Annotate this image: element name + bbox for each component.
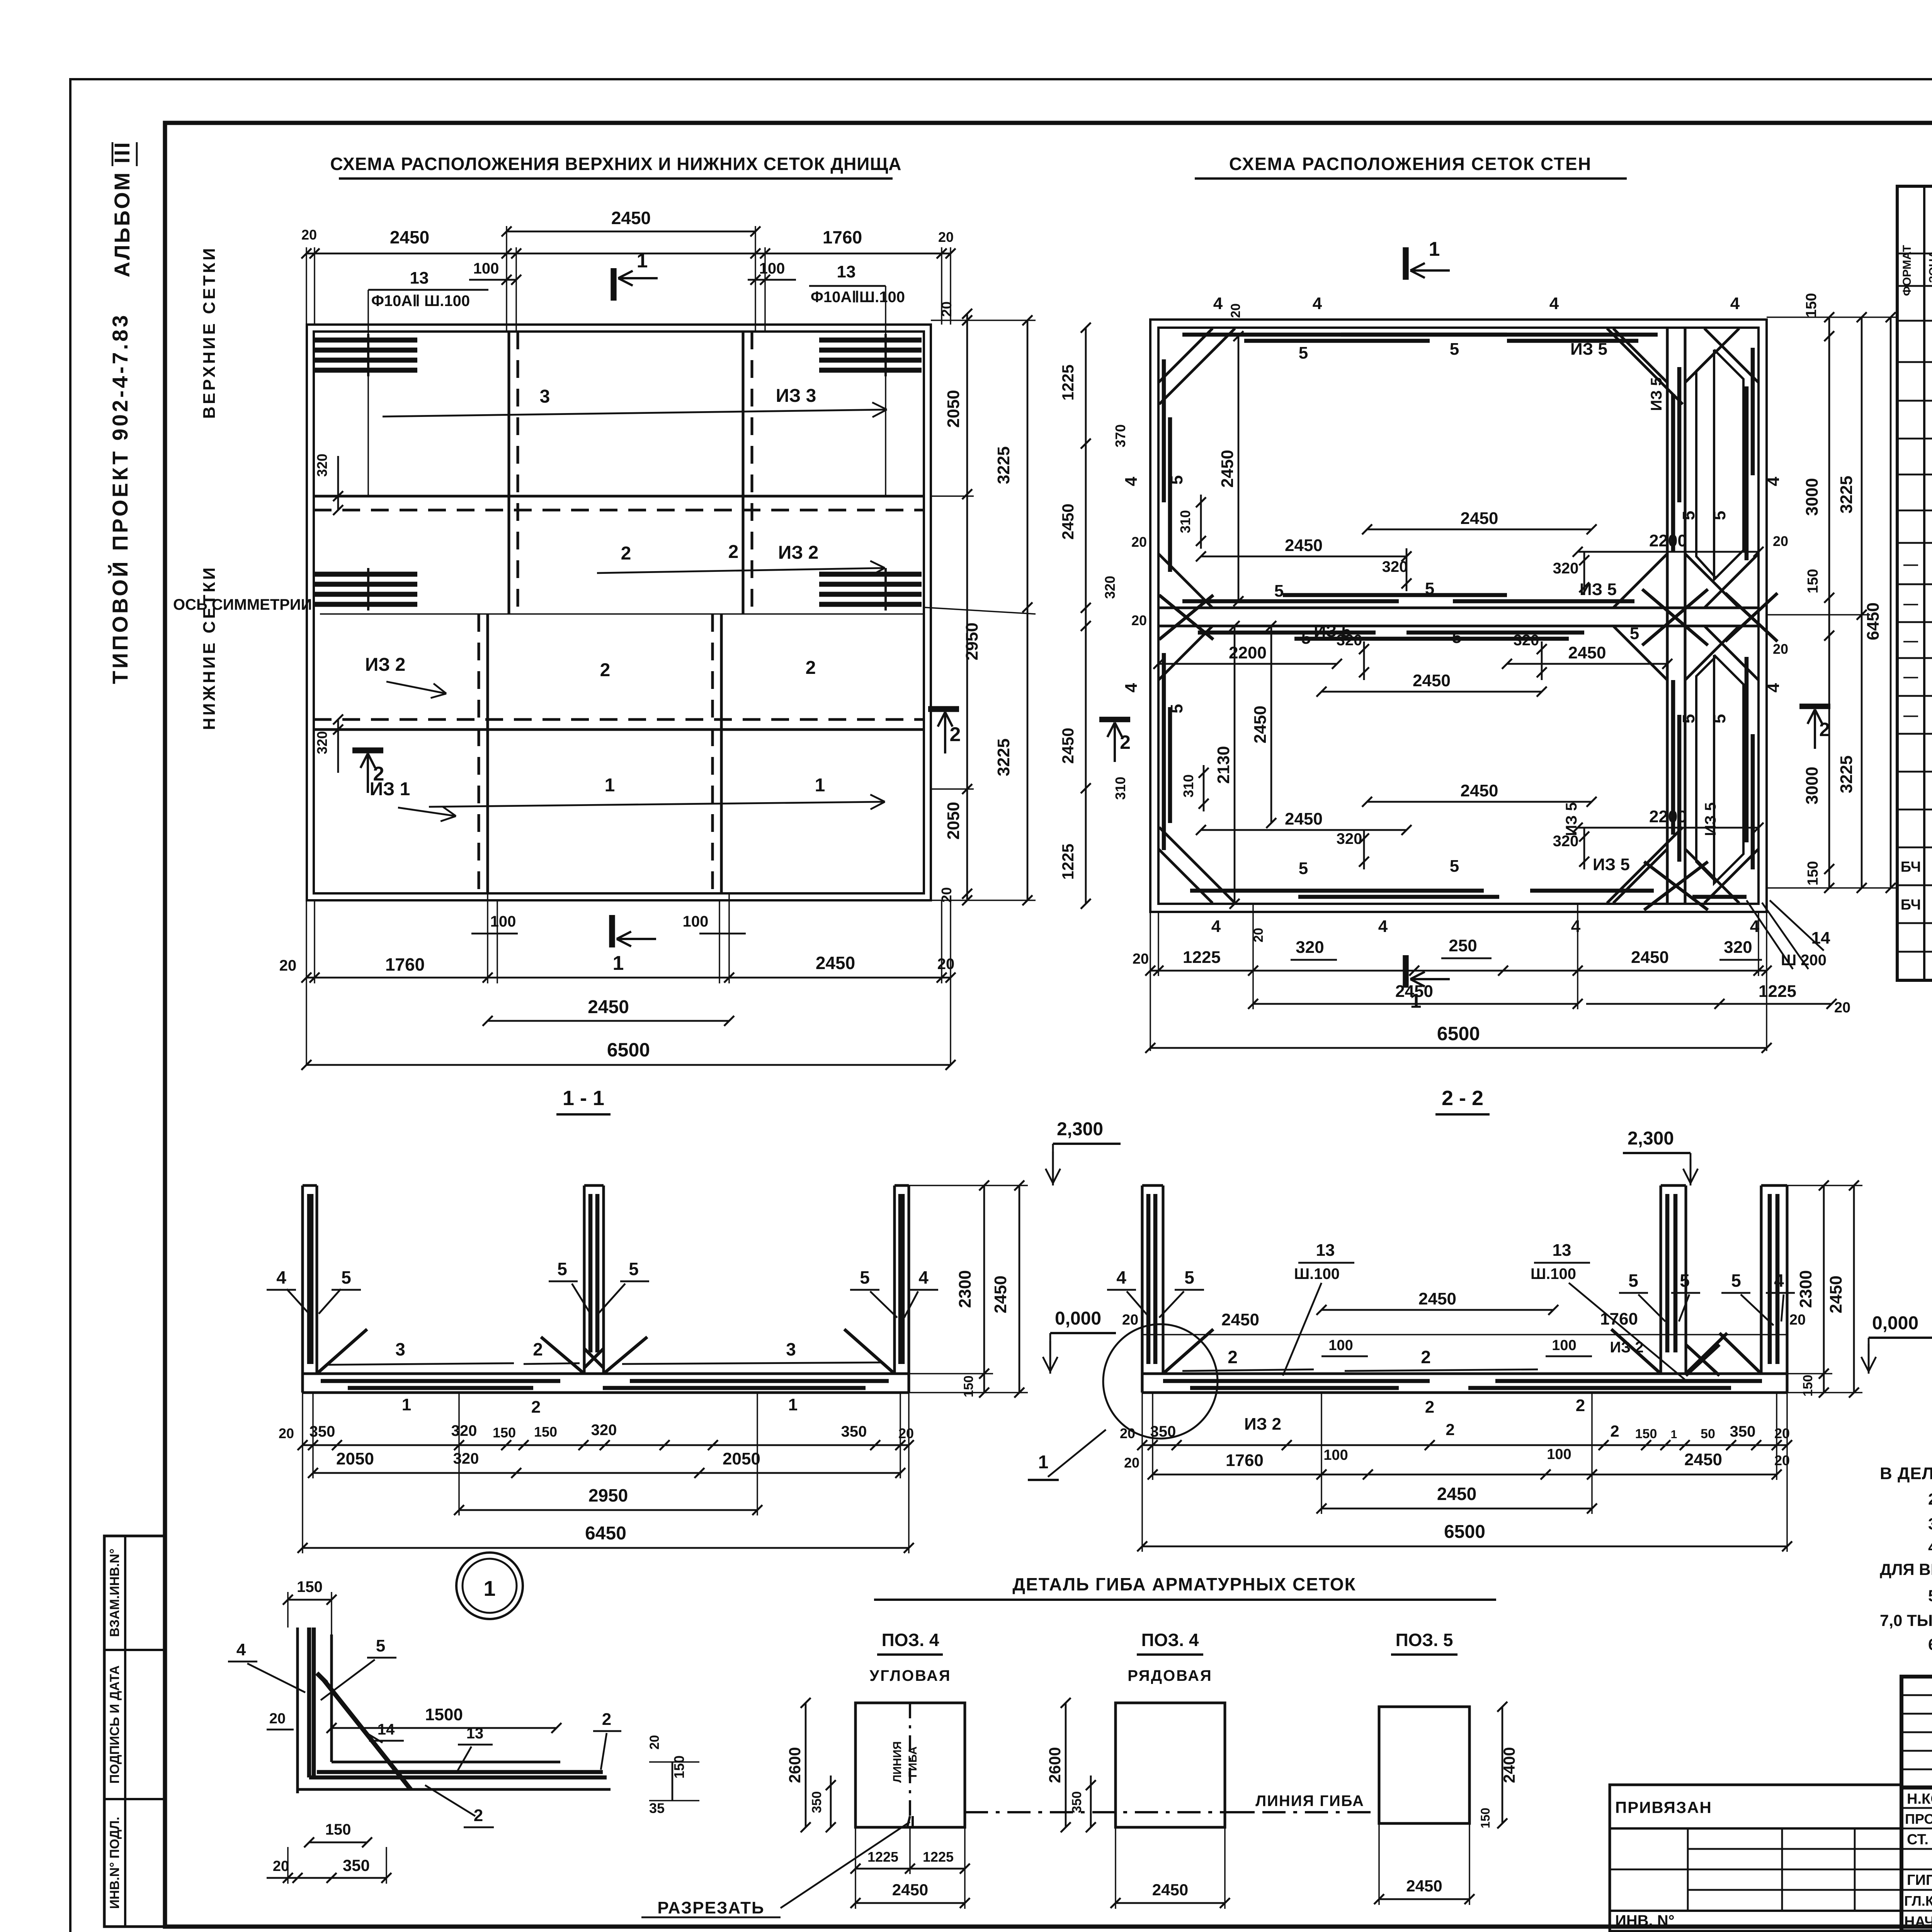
svg-text:СТ. ИНЖ.: СТ. ИНЖ.	[1907, 1832, 1932, 1848]
svg-text:В ДЕЛО СОГЛАСНО ДЕТАЛИ.: В ДЕЛО СОГЛАСНО ДЕТАЛИ.	[1880, 1464, 1932, 1483]
svg-text:СХЕМА РАСПОЛОЖЕНИЯ СЕТОК СТЕН: СХЕМА РАСПОЛОЖЕНИЯ СЕТОК СТЕН	[1229, 154, 1592, 174]
svg-text:—: —	[1903, 707, 1918, 724]
svg-text:2450: 2450	[1221, 1310, 1259, 1329]
svg-text:5: 5	[1299, 344, 1308, 362]
section 1-1 right dim 2450	[1019, 1185, 1020, 1393]
plan2 mesh lines bottom wall	[1190, 889, 1484, 893]
svg-text:2450: 2450	[1631, 948, 1669, 967]
svg-text:5: 5	[1710, 714, 1729, 723]
svg-text:2950: 2950	[963, 622, 981, 660]
plan2 corner chamfers top-left	[1158, 328, 1213, 383]
svg-text:2: 2	[1425, 1398, 1434, 1417]
plan2 double chamfer bottom-left	[1159, 827, 1235, 903]
plan2 X cross at bottom-innerwall	[1644, 862, 1708, 910]
svg-text:2: 2	[1610, 1422, 1619, 1440]
svg-text:2600: 2600	[786, 1747, 804, 1783]
svg-text:1: 1	[605, 775, 615, 796]
svg-text:1: 1	[1429, 238, 1440, 260]
plan2 chamfers above mid wall	[1158, 554, 1213, 608]
plan2 X cross at mid-innerwall junction	[1642, 589, 1708, 645]
svg-text:1: 1	[402, 1395, 411, 1414]
svg-text:3225: 3225	[994, 446, 1013, 484]
svg-text:ПОЗ. 4: ПОЗ. 4	[882, 1630, 939, 1650]
plan2 section mark 2 right	[1799, 704, 1830, 709]
svg-text:5: 5	[1628, 1270, 1638, 1291]
svg-text:350: 350	[343, 1856, 370, 1874]
poz4 uglovaya dim 2450	[855, 1902, 965, 1904]
section 2-2 slab meshes	[1163, 1379, 1430, 1383]
svg-text:5: 5	[1450, 857, 1459, 876]
plan1 bottom dim 6500	[306, 1064, 951, 1066]
svg-text:4: 4	[1549, 294, 1559, 313]
svg-text:4: 4	[1730, 294, 1740, 313]
svg-text:3225: 3225	[1837, 476, 1856, 514]
section 2-2 corner hooks	[1163, 1329, 1213, 1374]
svg-text:4: 4	[236, 1640, 246, 1659]
svg-text:5: 5	[1425, 579, 1434, 598]
svg-text:2: 2	[728, 542, 739, 562]
svg-text:ИЗ 5: ИЗ 5	[1580, 580, 1617, 599]
svg-text:АЛЬБОМ III: АЛЬБОМ III	[110, 141, 134, 277]
svg-text:2450: 2450	[390, 227, 429, 247]
plan1 bottom ext lines	[487, 893, 488, 983]
svg-text:320: 320	[1514, 632, 1539, 649]
plan1 lower dashed grid line	[314, 718, 924, 721]
plan2 bottom dim 6500	[1150, 1047, 1767, 1049]
plan2 X cross at mid-left junction	[1159, 595, 1213, 639]
svg-text:150: 150	[1805, 861, 1821, 885]
svg-text:20: 20	[938, 229, 954, 245]
svg-text:1760: 1760	[823, 227, 862, 247]
svg-text:20: 20	[647, 1735, 662, 1750]
svg-text:2200: 2200	[1649, 531, 1687, 550]
svg-text:1: 1	[1038, 1452, 1049, 1473]
plan2 corner chamfers bottom-innerwall	[1613, 849, 1667, 903]
section 2-2 wall tops	[1142, 1184, 1163, 1187]
svg-text:ИЗ 5: ИЗ 5	[1648, 377, 1665, 411]
svg-text:5.КОЛИЧЕСТВО САЛЬНИКОВ В СКО: 5.КОЛИЧЕСТВО САЛЬНИКОВ В СКОБКАХ ОТНОСЯТ…	[1928, 1587, 1932, 1605]
svg-text:Φ10АⅡ Ш.100: Φ10АⅡ Ш.100	[371, 293, 470, 310]
section 1-1 right dim 2300+150	[983, 1185, 985, 1393]
svg-text:2: 2	[602, 1710, 611, 1729]
svg-text:5: 5	[1450, 340, 1459, 359]
svg-text:5: 5	[1184, 1267, 1194, 1287]
svg-text:5: 5	[1167, 704, 1186, 713]
poz5 dim 2450	[1379, 1898, 1469, 1900]
stamp strip box	[104, 1536, 165, 1927]
svg-text:—: —	[1903, 633, 1918, 649]
section 2-2 right wall	[1760, 1185, 1762, 1374]
svg-text:—: —	[1903, 669, 1918, 685]
svg-text:320: 320	[451, 1422, 477, 1439]
svg-text:100: 100	[1552, 1337, 1576, 1354]
svg-text:ПОЗ. 4: ПОЗ. 4	[1141, 1630, 1199, 1650]
svg-text:150: 150	[325, 1821, 351, 1838]
svg-text:5: 5	[1167, 475, 1186, 485]
section 2-2 inner wall	[1659, 1185, 1662, 1374]
plan2 lower room dim 2450 center	[1321, 691, 1542, 693]
plan1 bottom dim row 20-1760-2450-20	[306, 977, 951, 979]
section 2-2 right dims 2300 2450	[1823, 1185, 1825, 1393]
svg-text:2450: 2450	[1827, 1276, 1845, 1313]
poz4 square uglovaya	[855, 1703, 965, 1827]
svg-text:3000: 3000	[1803, 767, 1821, 804]
plan1 lower-left vertical grid	[486, 614, 489, 893]
svg-text:2450: 2450	[1059, 503, 1077, 539]
svg-text:ИЗ 2: ИЗ 2	[1610, 1339, 1643, 1356]
plan2 right dim chain 150-3000	[1828, 317, 1830, 888]
svg-text:7,0 ТЫС.М³/ СУТКИ.: 7,0 ТЫС.М³/ СУТКИ.	[1880, 1611, 1932, 1629]
plan2 lower room dim 2450 lower-left	[1201, 829, 1406, 831]
svg-text:150: 150	[1635, 1427, 1657, 1441]
svg-text:20: 20	[1133, 951, 1149, 967]
svg-text:5: 5	[1679, 714, 1698, 723]
svg-text:1: 1	[483, 1576, 495, 1600]
plan2 lower room dim 2450 rotated	[1270, 626, 1272, 823]
svg-text:2450: 2450	[816, 953, 855, 973]
svg-text:20: 20	[1789, 1312, 1806, 1328]
svg-text:4: 4	[1378, 917, 1388, 936]
svg-text:1225: 1225	[1059, 844, 1077, 879]
svg-text:6500: 6500	[1444, 1522, 1485, 1542]
svg-text:1225: 1225	[1759, 982, 1796, 1001]
svg-text:ЗОНА: ЗОНА	[1927, 250, 1932, 283]
svg-text:20: 20	[1122, 1312, 1138, 1328]
section 1-1 slab meshes	[321, 1379, 560, 1383]
svg-text:2450: 2450	[1285, 810, 1323, 828]
svg-text:2450: 2450	[1218, 450, 1237, 488]
svg-text:2: 2	[600, 660, 611, 680]
svg-text:2: 2	[1576, 1396, 1585, 1415]
svg-text:4: 4	[1774, 1270, 1784, 1291]
poz4 uglovaya dims 1225 1225	[855, 1868, 965, 1870]
plan1 mesh hatch upper-right	[819, 338, 922, 343]
stamp outer box	[1901, 1677, 1932, 1931]
svg-text:2: 2	[1421, 1347, 1431, 1367]
section 1-1 middle wall	[583, 1185, 585, 1374]
plan2 X cross at mid-right junction	[1725, 593, 1777, 641]
svg-text:2450: 2450	[1418, 1289, 1456, 1308]
svg-text:ИНВ. N°: ИНВ. N°	[1615, 1912, 1675, 1929]
plan2 corner chamfers top-right-innerwall	[1613, 328, 1667, 383]
svg-text:РЯДОВАЯ: РЯДОВАЯ	[1128, 1667, 1213, 1684]
svg-text:20: 20	[273, 1858, 289, 1874]
svg-text:2200: 2200	[1649, 807, 1687, 826]
svg-text:2450: 2450	[588, 997, 629, 1017]
plan2 outer wall outline	[1150, 320, 1767, 912]
svg-text:2450: 2450	[1395, 982, 1433, 1001]
svg-text:13: 13	[466, 1725, 484, 1742]
svg-text:2450: 2450	[1285, 536, 1323, 555]
section 1-1 slab	[303, 1372, 909, 1375]
svg-text:4: 4	[1122, 683, 1141, 692]
svg-text:150: 150	[1803, 293, 1820, 317]
svg-text:320: 320	[314, 454, 330, 477]
svg-text:3: 3	[540, 386, 550, 407]
svg-text:100: 100	[473, 260, 499, 277]
plan1 lower-right vertical grid	[720, 614, 723, 893]
bend line through squares	[965, 1811, 1379, 1813]
plan2 left dim chain	[1085, 328, 1087, 904]
svg-text:2300: 2300	[956, 1270, 975, 1308]
plan1 upper-right vertical grid	[742, 332, 744, 614]
svg-text:1: 1	[637, 250, 648, 272]
svg-text:20: 20	[939, 301, 954, 317]
svg-text:350: 350	[1150, 1423, 1176, 1440]
section 1-1 bottom dims row2	[313, 1472, 900, 1474]
plan2 interior horizontal wall	[1158, 606, 1759, 609]
svg-text:2 - 2: 2 - 2	[1442, 1087, 1483, 1110]
svg-text:13: 13	[1316, 1241, 1335, 1260]
svg-text:1225: 1225	[1059, 364, 1077, 400]
plan2 upper room dim 2450 center	[1367, 529, 1592, 531]
section 1-1 right wall	[907, 1185, 910, 1393]
svg-text:ЛИНИЯ ГИБА: ЛИНИЯ ГИБА	[1255, 1793, 1364, 1810]
svg-text:20: 20	[1834, 1000, 1850, 1016]
svg-text:5: 5	[557, 1259, 567, 1279]
section 2-2 slab	[1142, 1372, 1787, 1375]
svg-text:320: 320	[1382, 558, 1408, 575]
svg-text:РАЗРЕЗАТЬ: РАЗРЕЗАТЬ	[657, 1898, 764, 1917]
section 1-1 bottom dims row1	[303, 1444, 909, 1446]
plan2 right dim chain 6450	[1890, 317, 1892, 888]
plan2 mesh lines left wall	[1162, 359, 1166, 502]
svg-text:370: 370	[1112, 424, 1128, 447]
plan2 mesh lines top wall	[1182, 333, 1507, 337]
svg-text:150: 150	[297, 1578, 323, 1595]
svg-text:2450: 2450	[1406, 1877, 1442, 1895]
svg-text:3: 3	[786, 1339, 796, 1359]
svg-text:ПОДПИСЬ И ДАТА: ПОДПИСЬ И ДАТА	[107, 1665, 122, 1784]
svg-text:20: 20	[279, 957, 297, 974]
svg-text:2450: 2450	[1684, 1450, 1722, 1469]
plan1 section mark 2 right	[928, 706, 959, 712]
svg-text:2400: 2400	[1500, 1747, 1518, 1783]
section 1-1 bottom dim 2950	[459, 1509, 757, 1511]
plan2 bottom dims row2	[1253, 1003, 1578, 1005]
plan2 mesh lines right outer wall	[1745, 386, 1749, 560]
svg-text:4.ЗАЩИТНЫЙ СЛОЙ БЕТОНА ДЛЯ: 4.ЗАЩИТНЫЙ СЛОЙ БЕТОНА ДЛЯ НИЖНИХ СЕТОК …	[1928, 1537, 1932, 1556]
svg-text:2450: 2450	[611, 208, 651, 228]
svg-text:4: 4	[918, 1267, 929, 1287]
svg-text:20: 20	[1773, 533, 1788, 549]
svg-text:ИЗ 3: ИЗ 3	[776, 386, 816, 406]
svg-text:2950: 2950	[588, 1485, 628, 1505]
plan1 right dim chain 2050-2950-2050	[966, 314, 968, 900]
section 2-2 dims 2450 inside	[1321, 1309, 1553, 1311]
svg-text:ДЕТАЛЬ ГИБА АРМАТУРНЫХ СЕ: ДЕТАЛЬ ГИБА АРМАТУРНЫХ СЕТОК	[1012, 1574, 1356, 1594]
svg-text:20: 20	[1228, 303, 1243, 318]
svg-text:3.АРМАТУРНЫЕ СЕТКИ ПОЗ.1÷5 В: 3.АРМАТУРНЫЕ СЕТКИ ПОЗ.1÷5 ВЫПОЛНЕНЫ ПО …	[1928, 1515, 1932, 1533]
svg-text:4: 4	[276, 1267, 286, 1287]
plan1 extension lines top	[306, 247, 307, 325]
svg-text:13: 13	[1553, 1241, 1571, 1260]
svg-text:ЛИНИЯ: ЛИНИЯ	[891, 1741, 904, 1782]
svg-text:5: 5	[376, 1636, 385, 1655]
section 1-1 corner hooks	[317, 1329, 367, 1374]
svg-text:5: 5	[341, 1267, 351, 1287]
svg-text:250: 250	[1449, 936, 1477, 955]
svg-text:6500: 6500	[607, 1039, 650, 1061]
svg-text:2450: 2450	[1152, 1881, 1188, 1899]
svg-text:Ш.100: Ш.100	[1531, 1265, 1576, 1282]
section 2-2 dims 2450 20 row	[1142, 1334, 1787, 1335]
svg-text:20: 20	[301, 227, 317, 243]
svg-text:2050: 2050	[944, 802, 963, 840]
svg-text:20: 20	[937, 956, 955, 973]
plan1 slab outline outer	[307, 325, 931, 900]
svg-text:2: 2	[621, 543, 631, 564]
svg-text:БЧ: БЧ	[1901, 859, 1921, 875]
svg-text:ИНВ.N° ПОДЛ.: ИНВ.N° ПОДЛ.	[107, 1817, 122, 1909]
svg-text:6.СЕТКИ ПОЗ. 5 УСТАНАВЛИВАТЬ.:: 6.СЕТКИ ПОЗ. 5 УСТАНАВЛИВАТЬ.: СВОБОДНЫМ…	[1928, 1635, 1932, 1653]
svg-text:2.ИЗДЕЛИЕ ЗАКЛАДНОЕ ПОЗ. 7 Д: 2.ИЗДЕЛИЕ ЗАКЛАДНОЕ ПОЗ. 7 ДАНО ДЛЯ ПРОИ…	[1928, 1490, 1932, 1508]
svg-text:20: 20	[269, 1711, 286, 1727]
svg-text:2,300: 2,300	[1057, 1119, 1103, 1139]
plan2 interior vertical wall	[1666, 328, 1668, 904]
svg-text:ГЛ.КОНСТР: ГЛ.КОНСТР	[1904, 1893, 1932, 1909]
svg-text:2450: 2450	[1413, 671, 1451, 690]
plan2 mesh lines mid wall upper	[1182, 599, 1399, 604]
plan1 mesh hatch mid-left	[315, 572, 417, 577]
svg-text:13: 13	[837, 262, 856, 281]
plan1 label 3 with leader	[383, 410, 887, 417]
plan1 right ext lines	[931, 320, 1036, 321]
plan1 slab outline inner	[314, 332, 924, 893]
svg-text:0,000: 0,000	[1872, 1313, 1918, 1333]
svg-text:13: 13	[410, 269, 429, 287]
section 1-1 wall tops	[303, 1184, 317, 1187]
section 2-2 bottom dim 6500	[1142, 1546, 1787, 1548]
svg-text:350: 350	[810, 1791, 824, 1813]
svg-text:2: 2	[373, 763, 384, 785]
section 1-1 bottom ext lines	[302, 1393, 303, 1553]
svg-text:ИЗ 5: ИЗ 5	[1593, 855, 1630, 874]
plan2 chamfers below mid wall	[1158, 626, 1213, 680]
svg-text:3000: 3000	[1803, 478, 1821, 516]
svg-text:14: 14	[1811, 929, 1830, 947]
svg-text:100: 100	[759, 260, 785, 277]
svg-text:4: 4	[1313, 294, 1322, 313]
svg-text:320: 320	[314, 731, 330, 754]
svg-text:2600: 2600	[1046, 1747, 1064, 1783]
svg-text:320: 320	[1296, 938, 1324, 957]
svg-text:БЧ: БЧ	[1901, 897, 1921, 913]
svg-text:НИЖНИЕ СЕТКИ: НИЖНИЕ СЕТКИ	[200, 565, 219, 730]
svg-text:1225: 1225	[867, 1849, 898, 1865]
plan2 bottom ext lines	[1150, 912, 1151, 1051]
svg-text:ИЗ 5: ИЗ 5	[1702, 802, 1719, 836]
svg-text:35: 35	[649, 1800, 665, 1816]
stamp signature rows	[1901, 1807, 1932, 1809]
plan1 mesh hatch mid-right	[819, 572, 922, 577]
corner detail top dim 150	[288, 1599, 332, 1601]
plan1 mesh hatch upper-left	[315, 338, 417, 343]
section 2-2 bottom dims row2	[1153, 1474, 1777, 1476]
svg-text:310: 310	[1177, 510, 1193, 533]
svg-text:5: 5	[1731, 1270, 1741, 1291]
poz5 dim 2400	[1502, 1707, 1503, 1823]
section 2-2 bottom ext lines	[1141, 1393, 1143, 1552]
poz4 square ryadovaya	[1116, 1703, 1225, 1827]
svg-text:350: 350	[1730, 1423, 1756, 1440]
svg-text:2450: 2450	[991, 1276, 1010, 1313]
svg-text:5: 5	[1680, 1270, 1690, 1291]
svg-text:1760: 1760	[385, 954, 425, 975]
plan1 upper dashed grid line	[314, 509, 924, 511]
svg-text:2050: 2050	[723, 1449, 760, 1468]
svg-text:150: 150	[1805, 569, 1821, 593]
detail mark circle 1	[456, 1553, 523, 1619]
svg-text:2: 2	[950, 723, 961, 746]
plan1 section mark 1 bottom	[609, 915, 615, 947]
corner detail dim 1500	[332, 1727, 556, 1729]
svg-text:320: 320	[1102, 576, 1118, 599]
svg-text:3: 3	[395, 1339, 405, 1359]
svg-text:2450: 2450	[1568, 643, 1606, 662]
svg-text:ФОРМАТ: ФОРМАТ	[1901, 245, 1913, 296]
poz4 ryadovaya dim 2450	[1116, 1902, 1225, 1904]
svg-text:100: 100	[1328, 1337, 1353, 1354]
svg-text:20: 20	[279, 1425, 294, 1441]
svg-text:1225: 1225	[1183, 948, 1221, 967]
svg-text:4: 4	[1764, 683, 1783, 692]
svg-text:Н.КОНТР.: Н.КОНТР.	[1907, 1791, 1932, 1807]
svg-text:УГЛОВАЯ: УГЛОВАЯ	[869, 1667, 951, 1684]
plan2 lower room dim 2200	[1158, 663, 1337, 665]
stamp upper grid	[1901, 1786, 1932, 1790]
svg-text:ТИПОВОЙ ПРОЕКТ 902-4-7.83: ТИПОВОЙ ПРОЕКТ 902-4-7.83	[108, 313, 132, 684]
svg-text:2450: 2450	[1461, 781, 1498, 800]
svg-text:4: 4	[1211, 917, 1221, 936]
svg-text:320: 320	[1337, 632, 1362, 649]
plan2 section mark 2 left	[1099, 717, 1130, 722]
svg-text:100: 100	[683, 913, 709, 930]
svg-text:2450: 2450	[892, 1881, 928, 1899]
svg-text:1: 1	[613, 952, 624, 975]
svg-text:ИЗ 2: ИЗ 2	[778, 543, 819, 563]
svg-text:320: 320	[453, 1450, 479, 1467]
plan2 lower room dim 2450 lower-center	[1367, 801, 1592, 803]
svg-text:2300: 2300	[1796, 1270, 1815, 1308]
plan2 double chamfer top-left	[1159, 328, 1235, 404]
privyazan table	[1610, 1785, 1901, 1931]
svg-text:ВЕРХНИЕ СЕТКИ: ВЕРХНИЕ СЕТКИ	[200, 246, 219, 419]
svg-text:1225: 1225	[923, 1849, 954, 1865]
svg-text:320: 320	[1337, 830, 1362, 847]
poz4 uglovaya dim 2600	[805, 1703, 807, 1827]
section 1-1 right ext lines	[909, 1185, 1028, 1186]
svg-text:Ш.100: Ш.100	[1294, 1265, 1340, 1282]
svg-text:5: 5	[1301, 629, 1311, 648]
svg-text:1500: 1500	[425, 1705, 463, 1724]
svg-text:6450: 6450	[1864, 602, 1883, 640]
svg-text:5: 5	[1630, 624, 1639, 643]
svg-text:350: 350	[841, 1423, 867, 1440]
plan1 section mark 1 top	[611, 268, 616, 301]
svg-text:20: 20	[1124, 1455, 1139, 1471]
svg-text:5: 5	[1710, 511, 1729, 520]
svg-text:20: 20	[1131, 612, 1147, 628]
svg-text:5: 5	[629, 1259, 639, 1279]
corner detail horizontal bars	[298, 1788, 611, 1791]
plan1 upper solid grid line	[314, 495, 924, 497]
svg-text:Φ10АⅡШ.100: Φ10АⅡШ.100	[811, 289, 905, 306]
svg-text:3225: 3225	[994, 738, 1013, 776]
svg-text:1760: 1760	[1226, 1451, 1264, 1470]
poz4 uglovaya bend line	[909, 1703, 911, 1816]
plan2 double chamfer top-right	[1607, 328, 1683, 404]
